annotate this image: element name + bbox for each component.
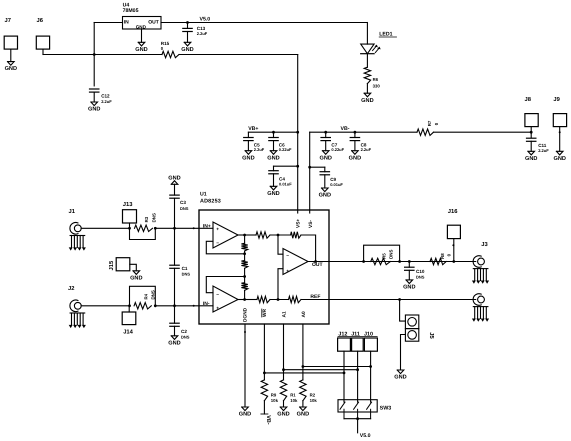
wire (343, 373, 345, 402)
wire (263, 401, 265, 414)
wire (344, 418, 371, 420)
svg-text:10k: 10k (290, 398, 298, 403)
wire OUT net (329, 261, 476, 263)
node junction (277, 234, 280, 237)
svg-text:AD8253: AD8253 (200, 198, 221, 204)
wire (199, 305, 213, 307)
capacitor C4 0.01uF (269, 170, 278, 172)
svg-text:DGND: DGND (243, 307, 249, 322)
svg-text:GND: GND (168, 176, 180, 182)
svg-text:J5: J5 (428, 332, 434, 339)
svg-text:OUT: OUT (312, 262, 323, 268)
svg-text:DNS: DNS (181, 335, 190, 340)
resistor internal (245, 234, 256, 236)
svg-text:0.22uF: 0.22uF (279, 147, 292, 152)
svg-text:10k: 10k (310, 398, 318, 403)
svg-text:GND: GND (239, 412, 251, 418)
svg-text:GND: GND (267, 155, 279, 161)
svg-text:10k: 10k (271, 398, 279, 403)
ground (245, 151, 252, 155)
capacitor C2 DNS (174, 306, 176, 323)
wire (401, 335, 406, 371)
ground (364, 93, 371, 97)
wire (161, 22, 367, 24)
svg-text:−: − (216, 241, 219, 246)
ground (184, 42, 191, 46)
ground (280, 407, 287, 411)
ground (406, 280, 413, 284)
svg-text:J13: J13 (123, 201, 133, 208)
node junction (324, 131, 327, 134)
svg-text:GND: GND (135, 47, 147, 53)
wire (43, 54, 162, 56)
chassis ground (70, 312, 85, 314)
gain resistor (241, 261, 247, 269)
capacitor C6 0.22uF (273, 132, 275, 137)
svg-text:J2: J2 (68, 285, 74, 292)
svg-text:R6: R6 (373, 77, 379, 82)
wire bus WR (264, 372, 344, 374)
node junction (243, 275, 246, 278)
ground (171, 181, 178, 185)
svg-text:C1: C1 (182, 266, 188, 271)
svg-text:VB+: VB+ (248, 126, 258, 132)
connector J4 (473, 294, 481, 306)
wire VS- pin (309, 210, 311, 213)
ground (322, 188, 329, 192)
wire REF net (329, 299, 476, 301)
op-amp A2 (213, 286, 238, 312)
svg-text:GND: GND (361, 98, 373, 104)
node junction (93, 53, 96, 56)
svg-text:VB-: VB- (265, 415, 271, 424)
resistor R9 10k (261, 380, 267, 401)
wire (248, 131, 297, 133)
svg-text:J15: J15 (109, 260, 115, 270)
capacitor C10 DNS (408, 262, 410, 268)
wire (179, 54, 298, 56)
svg-text:GND: GND (88, 107, 100, 113)
wire (274, 165, 298, 167)
svg-text:DNS: DNS (416, 274, 425, 279)
svg-text:J9: J9 (553, 96, 560, 103)
header J5 (405, 315, 418, 329)
resistor internal (245, 299, 257, 301)
svg-text:V5.0: V5.0 (360, 433, 371, 439)
node junction (282, 368, 285, 371)
wire (400, 300, 406, 322)
resistor R6 330 (364, 67, 370, 83)
svg-text:J8: J8 (525, 96, 532, 103)
chassis ground (473, 268, 488, 270)
svg-text:2.2uF: 2.2uF (101, 99, 112, 104)
svg-text:A0: A0 (301, 311, 307, 317)
resistor internal (289, 296, 302, 302)
svg-text:2.2uF: 2.2uF (197, 31, 208, 36)
wire (199, 227, 213, 229)
wire jumper loop (364, 245, 400, 261)
svg-text:WR: WR (262, 308, 268, 317)
ground (91, 102, 98, 106)
wire (310, 131, 417, 133)
chassis ground (70, 235, 85, 237)
wire OUT (308, 261, 329, 263)
svg-text:R2: R2 (310, 393, 316, 398)
svg-text:J7: J7 (5, 18, 11, 24)
ground (133, 271, 140, 275)
capacitor C3 DNS (174, 184, 176, 195)
node junction (243, 234, 246, 237)
svg-text:0.01uF: 0.01uF (330, 182, 343, 187)
svg-text:VS+: VS+ (296, 219, 302, 228)
svg-text:+: + (216, 306, 219, 311)
svg-text:0.01uF: 0.01uF (279, 181, 292, 186)
node junction (356, 417, 359, 420)
svg-text:J6: J6 (37, 17, 44, 24)
connector J14 (122, 312, 136, 325)
wire (434, 131, 532, 133)
svg-text:GND: GND (130, 275, 142, 281)
svg-text:J1: J1 (69, 209, 76, 215)
resistor R1 10k (280, 380, 286, 401)
node junction (272, 131, 275, 134)
svg-text:GND: GND (319, 193, 331, 199)
ground (8, 62, 15, 66)
node junction (530, 131, 533, 134)
svg-text:DNS: DNS (388, 250, 393, 259)
ground (242, 407, 249, 411)
svg-text:GND: GND (267, 191, 279, 197)
pin WR (263, 324, 265, 380)
svg-text:0.22uF: 0.22uF (331, 147, 344, 152)
ground (300, 407, 307, 411)
svg-text:J14: J14 (123, 329, 133, 335)
svg-text:C10: C10 (416, 269, 425, 274)
capacitor C1 DNS (174, 228, 176, 265)
wire (310, 166, 325, 168)
wire bus A1 (284, 369, 358, 371)
resistor internal feedback (291, 232, 301, 238)
wire (343, 351, 345, 373)
ground (270, 151, 277, 155)
op-amp A1 (213, 222, 238, 248)
switch SW3 (338, 400, 377, 412)
node junction (296, 165, 299, 168)
svg-text:J16: J16 (448, 208, 458, 215)
svg-text:U1: U1 (200, 191, 207, 197)
net V5.0 (357, 419, 359, 433)
svg-text:+: + (216, 227, 219, 232)
ground (556, 151, 563, 155)
chassis ground (473, 306, 488, 308)
capacitor C9 0.01uF (320, 171, 329, 173)
svg-text:R7: R7 (427, 120, 432, 126)
capacitor C8 2.2uF (354, 132, 356, 137)
wire jumper loop (130, 286, 156, 306)
ground (397, 370, 404, 374)
node junction (398, 298, 401, 301)
svg-text:GND: GND (181, 47, 193, 53)
svg-text:C3: C3 (180, 200, 186, 205)
node junction (263, 372, 266, 375)
node junction (343, 372, 346, 375)
svg-text:2.2uF: 2.2uF (361, 147, 372, 152)
node junction (314, 260, 317, 263)
node junction (308, 166, 311, 169)
svg-text:J3: J3 (481, 241, 488, 248)
svg-text:GND: GND (5, 66, 17, 72)
node junction (452, 260, 455, 263)
svg-text:2.2uF: 2.2uF (254, 147, 265, 152)
svg-text:−: − (216, 293, 219, 298)
capacitor C12 2.2uF (90, 88, 99, 90)
svg-text:GND: GND (297, 412, 309, 418)
svg-text:V5.0: V5.0 (200, 17, 211, 23)
wire (155, 227, 199, 229)
capacitor C11 2.2uF (527, 137, 536, 139)
svg-text:VS-: VS- (308, 220, 314, 228)
gain resistor (241, 283, 247, 291)
svg-text:78M05: 78M05 (123, 8, 139, 14)
svg-text:A1: A1 (282, 311, 288, 317)
op-amp A3 (283, 249, 308, 275)
wire jumper loop (130, 228, 156, 239)
svg-text:GND: GND (349, 155, 361, 161)
node junction (302, 365, 305, 368)
wire (155, 305, 199, 307)
gain resistor (244, 235, 246, 243)
svg-text:VB-: VB- (341, 126, 350, 132)
node junction (128, 304, 131, 307)
ground (528, 151, 535, 155)
svg-text:GND: GND (525, 156, 537, 162)
wire bus A0 (303, 366, 371, 368)
svg-text:SW3: SW3 (380, 405, 392, 411)
resistor R2 10k (300, 380, 306, 401)
ground (138, 42, 145, 46)
capacitor C13 2.2uF (187, 23, 189, 29)
svg-text:GND: GND (319, 155, 331, 161)
ground (322, 151, 329, 155)
node junction (362, 260, 365, 263)
svg-text:330: 330 (373, 84, 381, 89)
capacitor C7 0.22uF (325, 132, 327, 137)
svg-text:R3: R3 (144, 216, 149, 222)
wire (93, 23, 95, 86)
svg-text:GND: GND (242, 155, 254, 161)
svg-text:R5: R5 (381, 253, 386, 259)
svg-text:C2: C2 (181, 329, 187, 334)
svg-text:+: + (286, 269, 289, 274)
svg-text:R9: R9 (271, 393, 277, 398)
node junction (128, 227, 131, 230)
svg-text:R1: R1 (290, 393, 296, 398)
ground (270, 186, 277, 190)
svg-text:GND: GND (168, 340, 180, 346)
svg-text:DNS: DNS (152, 213, 157, 222)
svg-text:C12: C12 (101, 93, 110, 98)
ground (352, 151, 359, 155)
svg-text:GND: GND (553, 156, 565, 162)
svg-text:R4: R4 (144, 293, 149, 299)
node junction (186, 21, 189, 24)
svg-text:DNS: DNS (180, 206, 189, 211)
pin A1 (283, 324, 285, 380)
svg-text:OUT: OUT (148, 19, 159, 25)
pin DGND (244, 324, 246, 407)
svg-text:IN: IN (124, 19, 129, 25)
ground (171, 336, 178, 340)
svg-text:GND: GND (403, 285, 415, 291)
svg-text:GND: GND (277, 412, 289, 418)
svg-text:DNS: DNS (182, 272, 191, 277)
svg-text:GND: GND (394, 375, 406, 381)
net VB- (261, 413, 268, 415)
svg-text:−: − (286, 254, 289, 259)
pin A0 (302, 324, 304, 380)
wire VS+ pin (297, 210, 299, 213)
capacitor C5 2.2uF (247, 132, 249, 137)
svg-text:2.2uF: 2.2uF (538, 148, 549, 153)
